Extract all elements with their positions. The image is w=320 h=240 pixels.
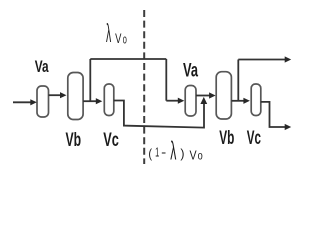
svg-text:(: (: [148, 146, 152, 161]
svg-text:V: V: [115, 31, 121, 46]
svg-text:Vb: Vb: [66, 130, 82, 151]
svg-text:Va: Va: [35, 57, 49, 76]
svg-text:V: V: [190, 147, 197, 162]
svg-text:Va: Va: [183, 61, 198, 82]
svg-text:o: o: [123, 32, 127, 47]
svg-text:-: -: [161, 144, 166, 159]
svg-text:): ): [180, 146, 184, 161]
svg-text:Vb: Vb: [219, 128, 234, 149]
svg-text:λ: λ: [106, 20, 111, 48]
svg-text:o: o: [198, 148, 203, 162]
svg-text:Vc: Vc: [247, 128, 261, 149]
svg-text:Vc: Vc: [103, 130, 119, 151]
svg-text:1: 1: [155, 144, 159, 159]
svg-text:λ: λ: [170, 135, 176, 165]
